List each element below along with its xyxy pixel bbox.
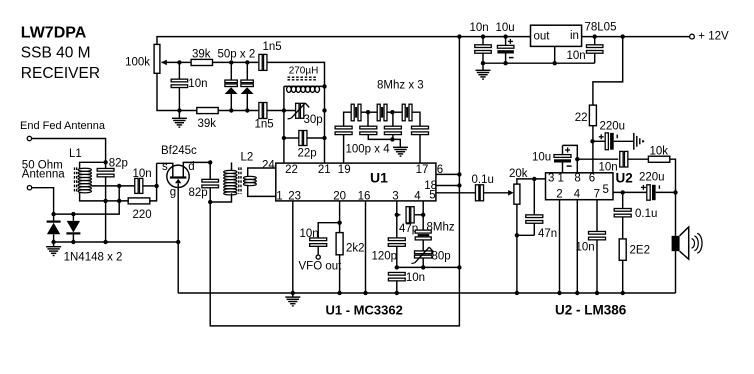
- wire 10n-220 link: [118, 186, 120, 201]
- node tank right at 22p row: [322, 136, 326, 140]
- svg-text:220u: 220u: [639, 172, 665, 184]
- inductor L2 secondary winding: [244, 176, 257, 179]
- svg-text:SSB 40 M: SSB 40 M: [21, 45, 91, 62]
- ground sideways (bypass): [633, 133, 635, 150]
- wire L1 bottom node to 220: [106, 200, 129, 202]
- node PSU gnd at 10u: [503, 61, 507, 65]
- svg-text:22: 22: [575, 112, 588, 124]
- regulator U3 78L05: [531, 25, 582, 46]
- node rail pin16: [363, 291, 367, 295]
- node drain node: [208, 160, 212, 164]
- varicap diode D 50p #2: [246, 62, 248, 80]
- wire X2 to X3: [387, 111, 402, 113]
- ground of PSU: [482, 63, 484, 70]
- wire +12V rail from regulator in to +12V terminal: [582, 36, 690, 38]
- wire +5V rail from 100k pot top to regulator out: [157, 37, 531, 45]
- node rail pin7: [595, 291, 599, 295]
- wire pin 3 down: [396, 201, 398, 238]
- svg-text:2: 2: [556, 188, 562, 200]
- svg-text:80p: 80p: [432, 250, 451, 262]
- diode D 1N4148 #2: [72, 214, 74, 221]
- crystal X1 8MHz: [351, 104, 354, 121]
- potentiometer R 100k: [154, 44, 160, 73]
- svg-text:LW7DPA: LW7DPA: [21, 24, 87, 41]
- capacitor 10n (source bypass): [135, 178, 138, 193]
- node pin 6 junction: [457, 172, 461, 176]
- svg-text:24: 24: [262, 159, 275, 171]
- svg-text:U1: U1: [370, 169, 388, 185]
- wire pin 23 to ground rail: [292, 201, 294, 293]
- resistor 39k (bottom): [197, 108, 218, 114]
- node pin 18 junction: [457, 183, 461, 187]
- wire end fed antenna to L1 top: [32, 139, 106, 163]
- svg-text:VFO out: VFO out: [299, 261, 343, 273]
- crystal X4 8Mhz (BFO): [415, 230, 431, 233]
- wire L1 bottom lead: [80, 192, 106, 201]
- wire tank right vertical to pin 21: [324, 86, 326, 163]
- wire 2k2 to ground rail: [339, 255, 341, 293]
- node pin 4 / 47p junction: [421, 213, 425, 217]
- svg-text:U1 - MC3362: U1 - MC3362: [326, 303, 403, 318]
- node rail pin23: [291, 291, 295, 295]
- svg-text:10n: 10n: [188, 78, 207, 90]
- node rail 2k2: [337, 291, 341, 295]
- wire X3 to output riser: [412, 112, 420, 126]
- node tap/10n junction: [117, 184, 121, 188]
- node pin 8 / tone junction: [575, 157, 579, 161]
- resistor 220 (source bias): [128, 198, 150, 204]
- wire pin 6 to +5V line: [436, 173, 460, 175]
- capacitor 220u electrolytic (output): [647, 185, 650, 200]
- svg-text:10n: 10n: [567, 50, 586, 62]
- svg-text:220u: 220u: [600, 121, 626, 133]
- op-amp U1 MC3362 box: [276, 163, 436, 201]
- capacitor 100p #3 (shunt): [392, 112, 394, 126]
- capacitor 10n (tuning filter): [178, 62, 180, 79]
- wire X1 to X2: [361, 111, 377, 113]
- wire +12V down-step to 22 ohm: [593, 37, 623, 106]
- wire speaker to ground rail: [675, 251, 677, 293]
- wire pin 16 to ground rail: [365, 201, 367, 293]
- capacitor 82p (L2): [209, 162, 211, 179]
- crystal X3 8MHz: [402, 104, 405, 121]
- wire BFO junction row: [397, 266, 460, 268]
- inductor 270uH core: [288, 76, 318, 78]
- node 47n top junction: [532, 177, 536, 181]
- wire 10k to speaker node: [670, 159, 676, 192]
- wire pot top to U2 pin 3: [517, 179, 546, 184]
- wire L1 top lead: [80, 162, 106, 168]
- capacitor 10u electrolytic (gain): [562, 163, 564, 173]
- node tank left at 22p row: [282, 136, 286, 140]
- wire diode row to L1 bottom node: [54, 201, 120, 214]
- node pot bottom junction: [515, 233, 519, 237]
- svg-text:20: 20: [333, 191, 346, 203]
- svg-text:0.1u: 0.1u: [472, 174, 494, 186]
- capacitor 0.1u (audio coupling): [475, 185, 478, 201]
- node pin 20 / VFO junction: [337, 221, 341, 225]
- node bottom/220 junction: [117, 199, 121, 203]
- svg-text:30p: 30p: [304, 114, 323, 126]
- wire pin 19 riser: [343, 135, 345, 163]
- svg-text:5: 5: [602, 184, 608, 196]
- node filter node 1: [366, 110, 370, 114]
- wire main ground rail: [178, 292, 676, 294]
- node tank left at 1n5 row: [282, 108, 286, 112]
- capacitor 120p: [388, 238, 405, 241]
- svg-text:RECEIVER: RECEIVER: [21, 65, 100, 82]
- node pot wiper junction: [177, 60, 181, 64]
- wire pin 18 to +5V line: [436, 185, 460, 187]
- capacitor 82p (L1): [105, 162, 107, 169]
- svg-text:10u: 10u: [496, 22, 515, 34]
- node pin4 branch bottom: [421, 265, 425, 269]
- node rail pin2: [557, 291, 561, 295]
- svg-text:22p: 22p: [298, 147, 317, 159]
- wire tone branch: [577, 158, 618, 160]
- wire 1n5 to tank left: [267, 110, 295, 112]
- svg-text:39k: 39k: [198, 118, 217, 130]
- wire pot bottom to ground rail: [516, 204, 518, 293]
- terminal VFO out: [316, 255, 320, 259]
- svg-text:19: 19: [338, 164, 351, 176]
- wire 0.1u to volume pot: [484, 192, 509, 194]
- capacitor 1n5 (bottom): [259, 103, 262, 119]
- svg-text:8: 8: [574, 173, 580, 185]
- wire pin 5 audio out: [436, 192, 475, 194]
- wire gate to ground rail: [177, 183, 179, 293]
- svg-text:1n5: 1n5: [255, 119, 274, 131]
- svg-text:50p x 2: 50p x 2: [218, 48, 256, 60]
- capacitor 100p #2 (shunt): [367, 112, 369, 126]
- node varicap1 bottom: [229, 108, 233, 112]
- op-amp U2 LM386 box: [546, 173, 614, 200]
- node rail pin4: [575, 291, 579, 295]
- node gnd bus at L1 cold end: [103, 240, 107, 244]
- svg-text:10n: 10n: [406, 272, 425, 284]
- wire 22 ohm to pin 6: [592, 126, 594, 173]
- node filter node 2: [390, 110, 394, 114]
- svg-text:78L05: 78L05: [585, 22, 617, 34]
- wire L2 primary bottom lead: [210, 193, 231, 202]
- wire 120p to 10n: [396, 246, 398, 268]
- node tank right at 30p row: [322, 108, 326, 112]
- svg-text:s: s: [162, 161, 168, 173]
- capacitor 10n (BFO to gnd): [388, 272, 405, 275]
- terminal 50 ohm antenna: [27, 186, 31, 190]
- wire input ground bus: [54, 241, 179, 243]
- svg-text:7: 7: [594, 188, 600, 200]
- svg-text:47n: 47n: [538, 228, 557, 240]
- svg-text:1: 1: [557, 173, 563, 185]
- wire L2 secondary to pin 24: [248, 168, 276, 176]
- node rail pot bottom: [515, 291, 519, 295]
- svg-text:L2: L2: [241, 152, 254, 164]
- wire L1 tap to 10n: [91, 185, 134, 187]
- capacitor 100p #1 (input coupling): [335, 126, 352, 129]
- wire wiper to 39k: [179, 61, 191, 63]
- node source node at 10n: [154, 184, 158, 188]
- node gnd bus at diode1: [51, 240, 55, 244]
- wire pin 8 riser: [563, 145, 578, 172]
- svg-text:U2 - LM386: U2 - LM386: [555, 303, 627, 318]
- wire bottom row to 1n5: [218, 110, 258, 112]
- svg-text:3: 3: [392, 191, 398, 203]
- wire VFO branch: [318, 223, 339, 239]
- resistor 22 (U2 supply): [589, 105, 596, 126]
- svg-text:22: 22: [285, 164, 298, 176]
- svg-text:+ 12V: + 12V: [698, 31, 729, 43]
- inductor L1 winding: [74, 167, 76, 193]
- wire pin 20 down: [339, 201, 341, 233]
- capacitor 10n (tone): [620, 151, 623, 167]
- node pin 5 junction: [621, 190, 625, 194]
- svg-text:g: g: [170, 186, 176, 198]
- ground of crystal filter: [392, 139, 400, 147]
- terminal end fed antenna: [27, 136, 31, 140]
- wire 10n to 10k: [628, 158, 648, 160]
- wiper arrow of 100k pot: [162, 61, 180, 63]
- wire 47n bottom to pot bottom: [517, 234, 534, 236]
- wire pin 4 to ground rail: [576, 200, 578, 293]
- node L1 top (82p): [103, 160, 107, 164]
- svg-text:2k2: 2k2: [346, 242, 365, 254]
- trimmer capacitor 30p: [296, 103, 299, 118]
- node L1 bottom: [103, 199, 107, 203]
- wire pin 4 down: [422, 201, 424, 230]
- wire pin 2 to ground rail: [559, 200, 561, 293]
- trimmer capacitor 80p: [415, 251, 432, 254]
- capacitor 100p #4 (output coupling): [412, 126, 429, 129]
- inductor L2 primary winding: [238, 167, 240, 194]
- svg-text:39k: 39k: [192, 48, 211, 60]
- transistor Q1 Bf245c: [167, 165, 189, 187]
- wire speaker feed: [675, 192, 677, 235]
- node U2 supply junction: [590, 139, 594, 143]
- resistor 2k2: [336, 233, 343, 255]
- wire PSU ground bus: [483, 62, 595, 64]
- node rail at 10n: [481, 34, 485, 38]
- wire L2 secondary to pin 1: [248, 185, 276, 197]
- svg-text:Antenna: Antenna: [22, 169, 65, 181]
- svg-text:10n: 10n: [470, 22, 489, 34]
- node rail 10n BFO: [395, 291, 399, 295]
- speaker LS1: [672, 236, 680, 251]
- capacitor 10n (pin 7 bypass): [589, 231, 606, 234]
- svg-text:6: 6: [589, 173, 595, 185]
- svg-text:4: 4: [414, 191, 421, 203]
- svg-text:Bf245c: Bf245c: [161, 145, 197, 157]
- wire regulator ground pin: [554, 46, 556, 63]
- node rail zobel: [621, 291, 625, 295]
- wire pin 7 down: [596, 200, 598, 232]
- wire 220 to source node: [150, 163, 157, 201]
- svg-text:in: in: [570, 30, 579, 42]
- node rail at 10u: [503, 34, 507, 38]
- capacitor 47p: [397, 214, 401, 216]
- resistor 2E2 (zobel): [619, 239, 626, 260]
- node pin3 branch bottom: [395, 265, 399, 269]
- svg-text:10n: 10n: [599, 161, 618, 173]
- ground of tuning divider: [177, 108, 181, 112]
- node gnd bus at gate line: [176, 240, 180, 244]
- svg-text:220: 220: [133, 209, 152, 221]
- svg-text:100k: 100k: [125, 57, 150, 69]
- wire 39k to varicaps: [213, 61, 259, 63]
- svg-text:10n: 10n: [576, 242, 595, 254]
- potentiometer R 20k (volume): [514, 184, 520, 204]
- wire tank left vertical to pin 22: [283, 86, 285, 163]
- crystal X2 8MHz: [377, 104, 380, 121]
- svg-text:8Mhz x 3: 8Mhz x 3: [377, 80, 424, 92]
- svg-text:1n5: 1n5: [263, 41, 282, 53]
- varicap diode D 50p #1: [230, 62, 232, 80]
- node PSU gnd at regulator: [553, 61, 557, 65]
- svg-text:8Mhz: 8Mhz: [427, 221, 455, 233]
- node PSU gnd at 10n: [481, 61, 485, 65]
- svg-text:1: 1: [276, 191, 282, 203]
- svg-text:d: d: [188, 161, 194, 173]
- svg-text:0.1u: 0.1u: [635, 208, 657, 220]
- svg-text:23: 23: [288, 191, 301, 203]
- node filter shunt caps junction: [390, 137, 394, 141]
- svg-text:1N4148 x 2: 1N4148 x 2: [64, 252, 123, 264]
- capacitor 47n: [533, 179, 535, 215]
- ground main: [292, 293, 294, 297]
- capacitor 10u electrolytic (regulator out): [505, 37, 507, 46]
- svg-text:82p: 82p: [189, 187, 208, 199]
- capacitor 220u electrolytic (supply bypass): [593, 140, 606, 142]
- wire L2 primary top lead: [231, 162, 233, 170]
- svg-text:120p: 120p: [372, 250, 398, 262]
- node varicap1 top: [229, 60, 233, 64]
- node +5V rail at feed line: [457, 34, 461, 38]
- node L2 bottom node: [208, 200, 212, 204]
- wire 50 ohm antenna to diodes: [32, 188, 54, 214]
- node speaker top junction: [673, 190, 677, 194]
- capacitor 10n (regulator out): [482, 37, 484, 45]
- svg-text:16: 16: [358, 191, 371, 203]
- capacitor 1n5 (top): [259, 54, 262, 70]
- svg-text:out: out: [534, 31, 551, 43]
- svg-text:17: 17: [416, 164, 429, 176]
- wire +5V feed via bottom loop: [210, 37, 459, 326]
- svg-text:3: 3: [548, 173, 554, 185]
- wire pot bottom to ground rail: [157, 73, 197, 110]
- wire crystal to 80p: [422, 240, 424, 251]
- svg-text:10k: 10k: [650, 145, 669, 157]
- svg-text:10n: 10n: [133, 168, 152, 180]
- diode D 1N4148 #1: [53, 214, 55, 221]
- resistor 10k: [648, 156, 669, 162]
- svg-text:4: 4: [574, 188, 581, 200]
- capacitor 10n (regulator in): [594, 37, 596, 45]
- svg-text:10n: 10n: [300, 228, 319, 240]
- svg-text:82p: 82p: [109, 157, 128, 169]
- svg-text:L1: L1: [69, 148, 82, 160]
- svg-text:10u: 10u: [532, 151, 551, 163]
- capacitor 0.1u (zobel): [622, 192, 624, 208]
- wire 1n5 to tank top corner: [267, 62, 325, 86]
- inductor L 270uH: [284, 85, 325, 87]
- capacitor 10n (VFO out): [310, 238, 327, 241]
- node diode 2 top: [71, 212, 75, 216]
- svg-text:2E2: 2E2: [630, 244, 650, 256]
- svg-text:21: 21: [318, 164, 331, 176]
- svg-text:U2: U2: [616, 170, 633, 185]
- svg-text:100p x 4: 100p x 4: [346, 143, 391, 155]
- node gnd bus at diode2: [71, 240, 75, 244]
- svg-text:5: 5: [429, 189, 435, 201]
- wire L1 grounded end: [105, 201, 107, 242]
- wire 2E2 to ground rail: [622, 260, 624, 293]
- node regulator in: [593, 34, 597, 38]
- node varicap2 top: [245, 60, 249, 64]
- node +12V takeoff: [621, 34, 625, 38]
- capacitor 22p: [284, 137, 299, 139]
- node diode 1 top: [51, 212, 55, 216]
- node tank top right: [322, 84, 326, 88]
- terminal +12V: [690, 34, 695, 39]
- wire 80p to junction: [422, 258, 424, 267]
- ground of antenna input: [53, 242, 55, 246]
- svg-text:270µH: 270µH: [289, 65, 319, 76]
- svg-text:20k: 20k: [509, 168, 528, 180]
- wire pin 5 output: [613, 191, 647, 193]
- node pin 3 / 47p junction: [395, 213, 399, 217]
- node BFO row at +5V line: [457, 265, 461, 269]
- svg-text:End Fed Antenna: End Fed Antenna: [20, 120, 106, 132]
- resistor 39k (top): [191, 59, 212, 65]
- node varicap2 bottom: [245, 108, 249, 112]
- wire 10n to source node: [143, 185, 156, 187]
